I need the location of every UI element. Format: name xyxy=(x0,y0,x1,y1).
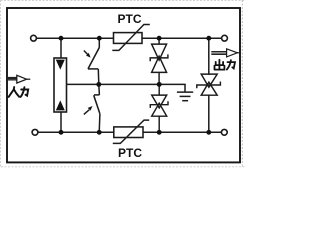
outer page edge (scan artifact) xyxy=(1,0,247,168)
svg-text:PTC: PTC xyxy=(118,12,142,26)
junction center line at D1/D2 xyxy=(157,82,162,87)
bidirectional diode D3 (right) xyxy=(197,74,221,95)
thermistor PTC1 (top) xyxy=(112,25,150,51)
ground xyxy=(177,84,193,100)
breakdown switch Q1 (upper) xyxy=(88,38,99,84)
junction bottom rail at arrester xyxy=(59,130,64,135)
junction top rail at D1 xyxy=(157,36,162,41)
label 出力 (output) xyxy=(215,60,236,70)
arrester (3-pole gas discharge tube) xyxy=(54,58,67,112)
terminal top-right xyxy=(222,35,228,41)
wire D3 top lead xyxy=(208,38,210,74)
breakdown switch Q2 (lower) xyxy=(94,84,100,132)
junction top rail at arrester xyxy=(59,36,64,41)
junction center line at Q1/Q2 xyxy=(96,82,101,87)
input arrow xyxy=(7,75,30,83)
terminal top-left xyxy=(31,35,37,41)
junction bottom rail at D3 xyxy=(206,130,211,135)
junction bottom rail at Q2 xyxy=(97,130,102,135)
junction top rail at D3 xyxy=(206,36,211,41)
arrow of Q1 xyxy=(84,51,91,58)
svg-text:PTC: PTC xyxy=(118,146,142,160)
junction bottom rail at D2 xyxy=(157,130,162,135)
wire D3 bottom lead xyxy=(208,95,210,132)
wire top rail xyxy=(37,37,222,39)
wire arrester bottom lead xyxy=(60,112,62,132)
label 入力 (input) xyxy=(9,87,29,97)
arrow of Q2 xyxy=(84,106,93,114)
schematic frame border xyxy=(7,8,240,162)
wire bottom rail xyxy=(38,131,222,133)
wire center line (arrester tap to ground) xyxy=(67,83,186,85)
bidirectional diode D2 (lower middle) xyxy=(150,84,168,132)
terminal bottom-left xyxy=(32,129,38,135)
bidirectional diode D1 (upper middle) xyxy=(150,38,168,84)
wire arrester top lead xyxy=(60,38,62,58)
output arrow xyxy=(211,49,239,57)
junction top rail at Q1 xyxy=(97,36,102,41)
thermistor PTC2 (bottom) xyxy=(113,120,149,143)
terminal bottom-right xyxy=(221,129,227,135)
